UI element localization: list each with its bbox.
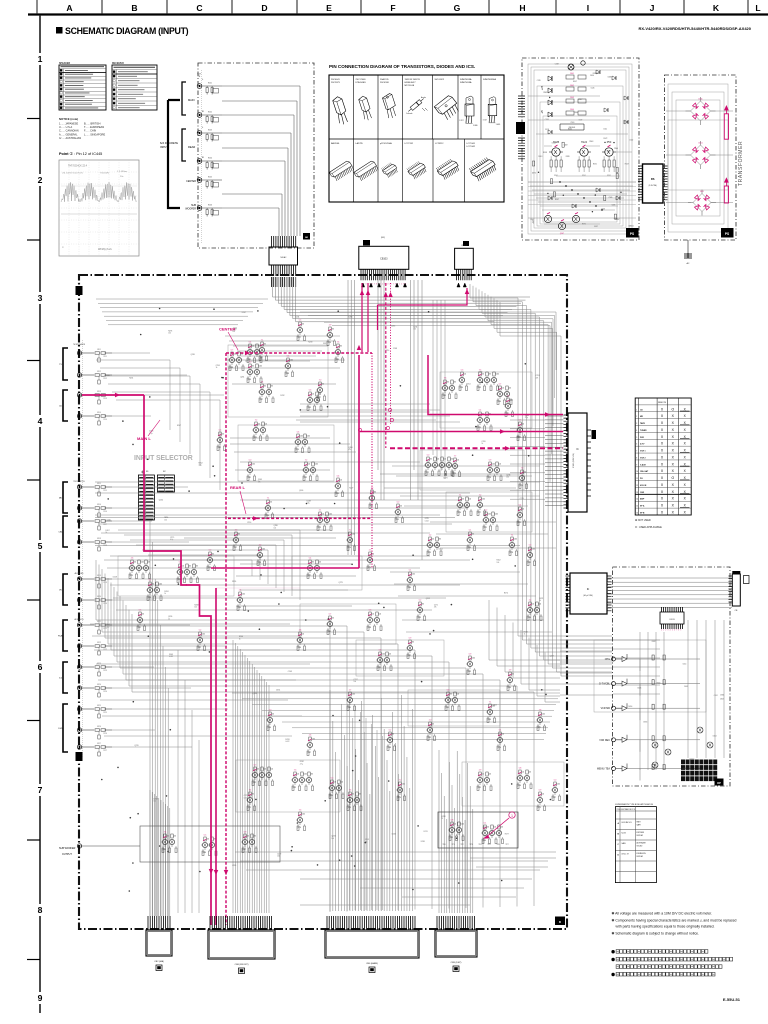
svg-text:11: 11: [636, 478, 638, 480]
svg-text:100k: 100k: [252, 464, 256, 466]
svg-text:7.5: 7.5: [479, 370, 482, 372]
svg-text:10k: 10k: [319, 394, 322, 396]
svg-text:22k: 22k: [389, 654, 392, 656]
svg-text:R106: R106: [208, 205, 212, 207]
svg-text:100k: 100k: [202, 634, 206, 636]
svg-text:10k: 10k: [502, 734, 505, 736]
svg-text:22k: 22k: [148, 562, 151, 564]
svg-text:100k: 100k: [312, 739, 316, 741]
svg-text:CB8 (FRONT): CB8 (FRONT): [235, 964, 249, 966]
svg-text:R562: R562: [568, 128, 572, 130]
svg-text:100k: 100k: [542, 714, 546, 716]
svg-text:10k: 10k: [252, 346, 255, 348]
wire: left ground dotted line: [82, 340, 84, 758]
svg-text:Q236: Q236: [506, 474, 510, 476]
svg-text:100k: 100k: [352, 534, 356, 536]
svg-text:1k: 1k: [164, 593, 166, 595]
svg-text:13: 13: [636, 492, 638, 494]
svg-text:5.0: 5.0: [554, 780, 557, 782]
svg-text:R277: R277: [505, 834, 509, 836]
svg-text:OUTPUT: OUTPUT: [62, 853, 72, 856]
svg-text:4.7µ: 4.7µ: [199, 465, 202, 467]
svg-text:OP: OP: [717, 781, 721, 785]
svg-text:LA2785: LA2785: [356, 142, 364, 145]
svg-text:10: 10: [636, 471, 638, 473]
svg-text:47k: 47k: [536, 377, 539, 379]
svg-text:CB2 (MA): CB2 (MA): [154, 960, 164, 963]
svg-text:0.1: 0.1: [149, 580, 152, 582]
svg-text:TRANSFORMER: TRANSFORMER: [738, 141, 744, 186]
svg-text:100k: 100k: [304, 774, 308, 776]
svg-text:D228: D228: [113, 577, 117, 579]
label: scattered component reference designators: [106, 312, 554, 867]
svg-text:7.1: 7.1: [459, 495, 462, 497]
svg-text:5.2: 5.2: [419, 600, 422, 602]
svg-text:0.6: 0.6: [379, 650, 382, 652]
connector: CB610 system bus: [729, 571, 750, 612]
connector: CB203 (main harness): [325, 916, 419, 973]
svg-text:R105: R105: [208, 177, 212, 179]
svg-text:47k: 47k: [332, 329, 335, 331]
wire bus: links to system control board: [489, 600, 613, 702]
svg-text:VCR 1: VCR 1: [640, 451, 646, 453]
svg-text:10k: 10k: [522, 772, 525, 774]
svg-text:C112: C112: [103, 378, 107, 380]
svg-text:6: 6: [636, 444, 637, 446]
svg-text:D241: D241: [295, 317, 299, 319]
svg-text:R598: R598: [543, 152, 547, 154]
svg-text:C111: C111: [103, 356, 107, 358]
svg-text:22k: 22k: [432, 539, 435, 541]
svg-text:R567: R567: [555, 199, 559, 201]
svg-text:0.5: 0.5: [139, 610, 142, 612]
svg-text:R585: R585: [543, 92, 547, 94]
svg-text:C124: C124: [103, 691, 107, 693]
resistor network: jack input terminations R101-R106: [202, 83, 222, 217]
svg-text:D211: D211: [424, 831, 428, 833]
svg-text:100: 100: [413, 329, 416, 331]
connector: key matrix block (filled grid): [681, 760, 717, 782]
part: service chip beside IC601: [592, 430, 597, 439]
svg-text:47k: 47k: [252, 794, 255, 796]
svg-text:1k: 1k: [441, 818, 443, 820]
wire bus: left harness runs to output connectors: [90, 353, 470, 916]
wire bus: center vertical highway: [348, 280, 445, 560]
svg-text:22k: 22k: [258, 424, 261, 426]
signal path: CB104 link: [378, 288, 470, 330]
IC: relay/regulator block RS501: [638, 164, 668, 203]
svg-text:100k: 100k: [329, 514, 333, 516]
svg-text:5.3: 5.3: [309, 390, 312, 392]
svg-text:22k: 22k: [272, 714, 275, 716]
svg-text:7: 7: [374, 284, 375, 286]
part: PS label chip (left board): [626, 226, 639, 238]
wire: microcomputer to CB bus: [607, 578, 732, 607]
svg-text:100: 100: [168, 333, 171, 335]
svg-text:with parts having specificatio: with parts having specifications equal t…: [616, 925, 715, 929]
svg-text:2.6: 2.6: [131, 558, 134, 560]
svg-text:100k: 100k: [461, 824, 465, 826]
svg-text:GD: GD: [305, 237, 309, 239]
svg-text:CB103: CB103: [380, 258, 388, 261]
svg-text:47k: 47k: [312, 562, 315, 564]
svg-text:100k: 100k: [510, 400, 514, 402]
svg-text:C595: C595: [537, 80, 541, 82]
wire bus: top distribution from CB102: [96, 277, 556, 482]
svg-text:2.2: 2.2: [235, 530, 238, 532]
svg-text:10k: 10k: [154, 801, 157, 803]
svg-text:47k: 47k: [450, 694, 453, 696]
svg-text:Q263: Q263: [525, 415, 529, 417]
rectifier: bridge DB501: [686, 97, 716, 125]
svg-text:10k: 10k: [334, 782, 337, 784]
svg-text:AMP: AMP: [640, 498, 645, 501]
svg-text:10k: 10k: [499, 464, 502, 466]
symbol: transistor and diode package drawings (top row): [331, 78, 500, 127]
svg-text:(NF): (NF): [381, 237, 385, 239]
connector: CB101 comb (jack panel, upper teeth): [272, 236, 296, 247]
table: remote/function assignment matrix: [635, 398, 691, 515]
svg-text:C530: C530: [570, 122, 574, 124]
svg-text:47k: 47k: [311, 774, 314, 776]
svg-text:10k: 10k: [464, 374, 467, 376]
svg-text:47k: 47k: [254, 836, 257, 838]
svg-text:7.4: 7.4: [249, 790, 252, 792]
svg-text:22k: 22k: [222, 434, 225, 436]
svg-text:100k: 100k: [234, 354, 238, 356]
svg-text:D221: D221: [539, 598, 543, 600]
svg-text:C678: C678: [690, 759, 694, 761]
svg-text:A: A: [66, 3, 72, 13]
svg-text:0.022: 0.022: [285, 741, 289, 743]
svg-text:C258: C258: [216, 365, 220, 367]
svg-text:D207: D207: [106, 530, 110, 532]
svg-text:R208: R208: [194, 604, 198, 606]
svg-text:5.1: 5.1: [409, 570, 412, 572]
svg-text:+25: +25: [540, 85, 544, 90]
svg-text:100k: 100k: [290, 360, 294, 362]
svg-text:5: 5: [38, 541, 43, 551]
svg-text:10k: 10k: [532, 604, 535, 606]
svg-text:LC75342: LC75342: [467, 146, 476, 148]
svg-text:47k: 47k: [430, 459, 433, 461]
svg-text:2: 2: [38, 175, 43, 185]
svg-text:4.7µ: 4.7µ: [525, 417, 528, 419]
enclosure: system control board (dash-dot): [613, 567, 731, 786]
svg-text:6: 6: [38, 662, 43, 672]
svg-text:7.2: 7.2: [305, 460, 308, 462]
svg-text:7.2: 7.2: [479, 495, 482, 497]
transistor: regulator drivers Q501 H12B/H124/P50: [549, 141, 616, 177]
svg-text:CB9 (DSP): CB9 (DSP): [451, 962, 462, 964]
svg-text:2SC1740S: 2SC1740S: [356, 79, 367, 81]
part: PS label chip (rectifier board): [721, 228, 734, 238]
svg-text:1: 1: [38, 54, 43, 64]
svg-text:2: 2: [636, 416, 637, 418]
wire: AC feed drop below board: [685, 240, 691, 265]
svg-text:4: 4: [38, 416, 43, 426]
svg-text:1: 1: [511, 814, 513, 818]
svg-text:7.2: 7.2: [349, 530, 352, 532]
test point: pink level marks near volume bus: [358, 408, 393, 431]
svg-text:TP1: TP1: [452, 844, 455, 846]
label: drawing number E-55U-51: [723, 997, 741, 1002]
svg-text:0.6: 0.6: [337, 476, 340, 478]
svg-text:1k: 1k: [106, 532, 108, 534]
svg-text:2: 2: [665, 630, 666, 632]
svg-text:22k: 22k: [512, 674, 515, 676]
svg-text:100k: 100k: [495, 514, 499, 516]
svg-text:0.022: 0.022: [106, 626, 110, 628]
svg-text:K: K: [713, 3, 720, 13]
svg-text:D-TV/CBL: D-TV/CBL: [599, 683, 611, 686]
svg-text:47k: 47k: [348, 449, 351, 451]
svg-text:CB501: CB501: [628, 226, 633, 228]
svg-text:0.022: 0.022: [169, 656, 173, 658]
svg-text:7.2: 7.2: [399, 780, 402, 782]
svg-text:EXPERIMENTS TYPE B RECAPITUL: EXPERIMENTS TYPE B RECAPITULATION: [615, 803, 653, 806]
connector: CB202 (front harness): [208, 916, 275, 974]
connector: CB101 lower teeth: [272, 265, 296, 276]
label: jack column section names: [73, 343, 86, 621]
junction: connector pin arrows: [361, 283, 466, 287]
svg-text:100k: 100k: [532, 549, 536, 551]
svg-text:100k: 100k: [259, 366, 263, 368]
svg-text:10k: 10k: [340, 480, 343, 482]
svg-text:C643: C643: [684, 686, 688, 688]
label: MAIN L: [137, 420, 160, 441]
svg-text:2.9: 2.9: [329, 325, 332, 327]
svg-text:R214: R214: [466, 383, 470, 385]
svg-text:D501: D501: [570, 73, 574, 75]
svg-text:D547: D547: [530, 219, 534, 221]
svg-text:7.6: 7.6: [337, 342, 340, 344]
svg-text:D: D: [261, 3, 267, 13]
svg-text:10k: 10k: [341, 782, 344, 784]
svg-text:R252: R252: [199, 463, 203, 465]
enclosure: power supply primary board (dash-dot): [522, 58, 639, 240]
svg-text:100k: 100k: [302, 814, 306, 816]
svg-text:f 53.1kHz: f 53.1kHz: [100, 173, 109, 175]
svg-text:2.6: 2.6: [309, 735, 312, 737]
svg-text:P50: P50: [607, 141, 612, 144]
svg-text:22k: 22k: [462, 499, 465, 501]
svg-text:0.9: 0.9: [469, 654, 472, 656]
wire: rectifier board loops: [666, 84, 733, 232]
svg-text:22k: 22k: [270, 502, 273, 504]
svg-text:2SC4598: 2SC4598: [380, 82, 390, 84]
svg-text:10k: 10k: [542, 794, 545, 796]
svg-text:2.9: 2.9: [479, 770, 482, 772]
svg-text:7.3: 7.3: [299, 810, 302, 812]
part: control board label chip: [715, 779, 724, 786]
svg-text:100: 100: [506, 477, 509, 479]
svg-text:10k: 10k: [444, 459, 447, 461]
svg-text:O: O: [671, 407, 674, 411]
svg-text:47k: 47k: [196, 566, 199, 568]
svg-text:7.1: 7.1: [489, 702, 492, 704]
svg-text:O : USED APPLICABLE: O : USED APPLICABLE: [635, 526, 662, 529]
signal path: REAR L (dashed): [228, 516, 372, 520]
svg-text:10k: 10k: [274, 527, 277, 529]
svg-text:100k: 100k: [159, 584, 163, 586]
model designation text: [639, 26, 752, 31]
svg-text:I: I: [587, 3, 589, 13]
svg-text:R127: R127: [97, 743, 101, 745]
wire: power board distribution bus: [528, 181, 636, 210]
svg-text:NOTICE (note): NOTICE (note): [59, 117, 78, 121]
svg-text:10k: 10k: [482, 774, 485, 776]
svg-text:R276: R276: [168, 330, 172, 332]
svg-text:Q280: Q280: [274, 525, 278, 527]
svg-text:WFM(s) 6.2s: WFM(s) 6.2s: [98, 248, 112, 251]
svg-text:10k: 10k: [312, 394, 315, 396]
svg-text:D543: D543: [607, 150, 611, 152]
svg-text:5.2: 5.2: [199, 630, 202, 632]
svg-text:10k: 10k: [302, 634, 305, 636]
svg-text:5.9: 5.9: [244, 832, 247, 834]
oscillogram: reference waveform box: [59, 160, 139, 256]
svg-text:22k: 22k: [174, 836, 177, 838]
svg-text:10k: 10k: [502, 388, 505, 390]
svg-text:47k: 47k: [447, 382, 450, 384]
svg-text:2.7: 2.7: [349, 690, 352, 692]
svg-text:D507: D507: [573, 81, 577, 83]
svg-text:5: 5: [636, 437, 637, 439]
svg-text:5.1: 5.1: [499, 730, 502, 732]
svg-text:0.5: 0.5: [204, 835, 207, 837]
IC: electronic volume IC601: [564, 413, 592, 512]
svg-text:0.3: 0.3: [447, 690, 450, 692]
svg-text:SUB WOOFER: SUB WOOFER: [59, 847, 76, 850]
svg-text:INPUT: INPUT: [160, 145, 168, 149]
note: service notes (english): [612, 912, 737, 936]
note: Point 1 Pin 12 of IC445: [59, 152, 102, 156]
enclosure: main input board (dash-dot outline): [79, 275, 567, 929]
svg-text:5.3: 5.3: [331, 778, 334, 780]
svg-text:7: 7: [636, 451, 637, 453]
svg-text:1SS133 1SS270: 1SS133 1SS270: [405, 79, 421, 81]
svg-text:R632: R632: [652, 641, 656, 643]
svg-text:PIN CONNECTION DIAGRAM OF TRAN: PIN CONNECTION DIAGRAM OF TRANSISTORS, D…: [329, 64, 475, 69]
svg-text:C123: C123: [103, 670, 107, 672]
svg-text:D273: D273: [443, 477, 447, 479]
svg-text:22k: 22k: [487, 827, 490, 829]
svg-text:0.7: 0.7: [231, 350, 234, 352]
svg-text:R115: R115: [97, 483, 101, 485]
svg-text:4: 4: [670, 630, 671, 632]
svg-text:SCHEMATIC DIAGRAM (INPUT): SCHEMATIC DIAGRAM (INPUT): [65, 26, 189, 36]
svg-text:22k: 22k: [509, 388, 512, 390]
svg-text:C116: C116: [103, 511, 107, 513]
svg-text:D502: D502: [570, 85, 574, 87]
svg-text:10k: 10k: [265, 424, 268, 426]
svg-text:Q507: Q507: [560, 233, 564, 235]
svg-text:2.2: 2.2: [259, 545, 262, 547]
svg-text:CENTER: CENTER: [219, 327, 236, 332]
svg-text:E-55U-51: E-55U-51: [723, 997, 741, 1002]
svg-text:10k: 10k: [308, 464, 311, 466]
svg-text:IC: IC: [587, 587, 590, 591]
svg-text:AV SOUND: AV SOUND: [75, 572, 84, 575]
svg-text:L: L: [755, 3, 760, 13]
svg-text:22k: 22k: [207, 839, 210, 841]
svg-text:G: G: [454, 3, 461, 13]
enclosure: pin connection diagram box: [329, 64, 504, 202]
part: shield tab chip: [303, 233, 310, 240]
svg-text:10k: 10k: [457, 694, 460, 696]
wire: jack panel ground dotted line: [201, 70, 203, 243]
svg-text:22k: 22k: [142, 614, 145, 616]
svg-text:10k: 10k: [322, 514, 325, 516]
svg-text:R563: R563: [589, 141, 593, 143]
svg-text:7: 7: [676, 630, 677, 632]
svg-text:R527: R527: [625, 164, 629, 166]
svg-text:R112: R112: [97, 371, 101, 373]
svg-text:C272: C272: [244, 795, 248, 797]
svg-text:47k: 47k: [412, 642, 415, 644]
svg-text:10k: 10k: [469, 499, 472, 501]
svg-text:R124: R124: [97, 684, 101, 686]
svg-text:2.2: 2.2: [429, 535, 432, 537]
svg-text:SP A: SP A: [640, 505, 645, 508]
svg-text:C568: C568: [608, 76, 612, 78]
svg-text:22k: 22k: [489, 774, 492, 776]
wire bus: mid-board long runs and stage outlines: [95, 345, 706, 812]
svg-text:8: 8: [38, 905, 43, 915]
svg-text:D684: D684: [720, 695, 724, 697]
svg-text:10k: 10k: [494, 827, 497, 829]
svg-text:10k: 10k: [277, 856, 280, 858]
svg-text:TAPE: TAPE: [640, 422, 646, 425]
svg-text:1k: 1k: [539, 600, 541, 602]
svg-text:1: 1: [636, 409, 637, 411]
wire bus: center row interconnects: [225, 336, 460, 422]
svg-text:AV BIALOG: AV BIALOG: [75, 618, 85, 621]
svg-text:C511: C511: [603, 128, 607, 130]
connector: CB103 header with pin numbers: [359, 237, 409, 286]
svg-text:1k: 1k: [239, 638, 241, 640]
svg-text:C125: C125: [103, 712, 107, 714]
svg-text:C614: C614: [683, 663, 687, 665]
svg-text:CBL-SAT: CBL-SAT: [640, 470, 649, 473]
svg-text:D266: D266: [348, 317, 352, 319]
svg-text:TP0: TP0: [443, 844, 446, 846]
svg-text:DVD: DVD: [58, 728, 63, 730]
svg-text:C591: C591: [612, 205, 616, 207]
svg-text:5.4: 5.4: [479, 410, 482, 412]
svg-text:100k: 100k: [307, 436, 311, 438]
svg-text:5.6: 5.6: [297, 432, 300, 434]
svg-text:47k: 47k: [422, 604, 425, 606]
svg-text:D233: D233: [285, 739, 289, 741]
svg-text:C540: C540: [629, 139, 633, 141]
svg-text:100: 100: [331, 838, 334, 840]
svg-text:D614: D614: [713, 735, 717, 737]
svg-text:4.7µ: 4.7µ: [307, 503, 310, 505]
svg-text:C113: C113: [103, 398, 107, 400]
svg-text:C537: C537: [579, 119, 583, 121]
rectifier: bridge DB502: [686, 141, 716, 169]
svg-text:R116: R116: [97, 504, 101, 506]
svg-text:C517: C517: [578, 99, 582, 101]
svg-text:12: 12: [636, 485, 638, 487]
svg-text:2SC4641: 2SC4641: [331, 79, 341, 81]
svg-text:8: 8: [636, 457, 637, 459]
svg-text:C215: C215: [365, 839, 369, 841]
svg-text:47k: 47k: [252, 366, 255, 368]
svg-text:U...... U.S.A: U...... U.S.A: [59, 126, 73, 129]
